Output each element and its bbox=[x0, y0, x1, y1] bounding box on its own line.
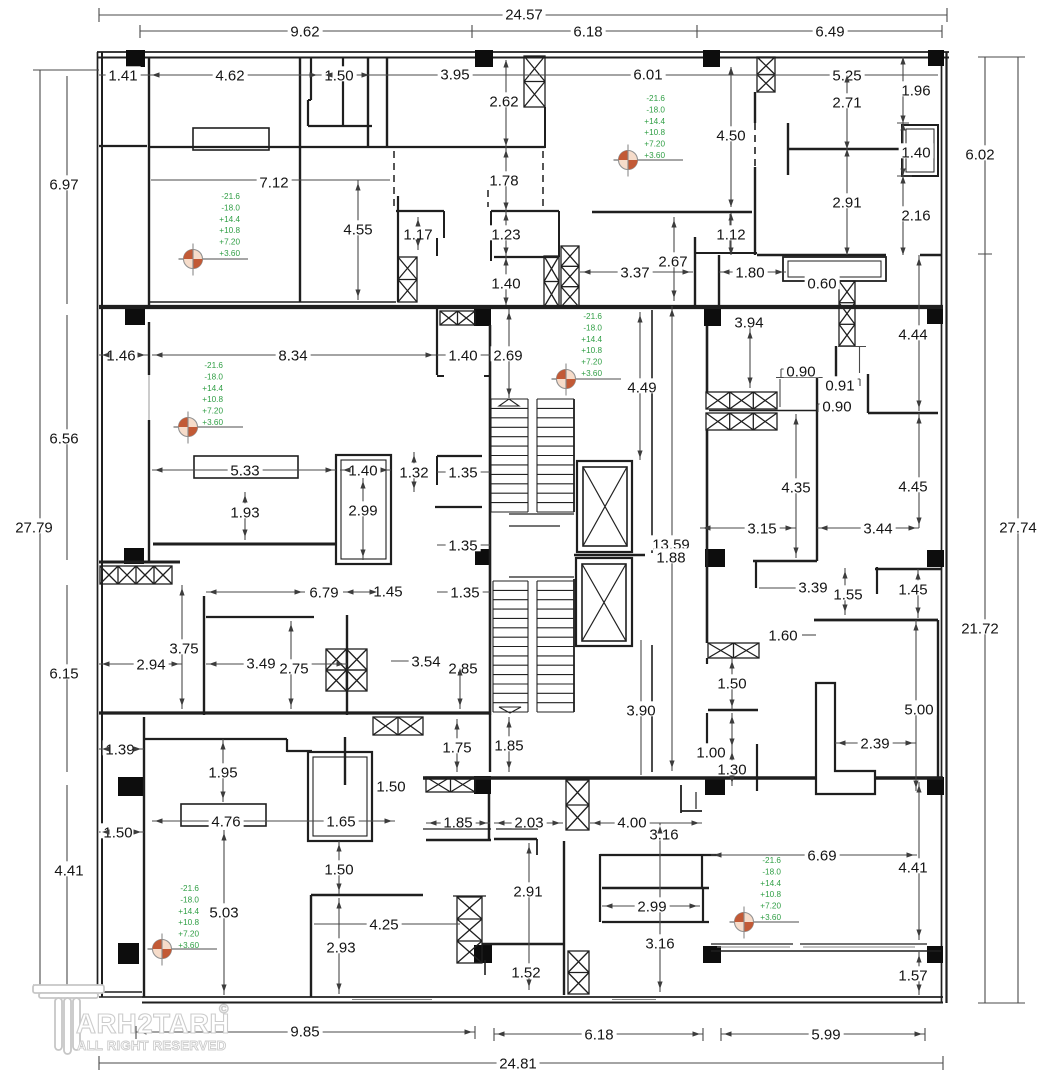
level annotation bbox=[644, 94, 665, 160]
dimension 1.40 bbox=[346, 461, 381, 476]
svg-text:+10.8: +10.8 bbox=[581, 346, 602, 355]
wall bbox=[708, 709, 758, 711]
dim 6.69 bbox=[711, 854, 917, 856]
wall jamb bbox=[437, 375, 444, 377]
dimension 5.99 bbox=[809, 1025, 844, 1040]
dimension 1.32 bbox=[397, 463, 432, 478]
dimension 1.52 bbox=[509, 963, 544, 978]
dimension 5.33 bbox=[228, 461, 263, 476]
dimension 0.90 bbox=[784, 362, 819, 377]
dimension 6.49 bbox=[813, 22, 848, 37]
svg-text:4.50: 4.50 bbox=[716, 127, 745, 144]
svg-text:0.90: 0.90 bbox=[822, 398, 851, 415]
svg-text:2.99: 2.99 bbox=[348, 502, 377, 519]
dimension 2.75 bbox=[277, 659, 312, 674]
wall bbox=[600, 854, 719, 856]
wall bbox=[311, 894, 423, 896]
dim 1.12 bbox=[730, 213, 732, 255]
stair shaft wall bbox=[573, 399, 575, 512]
svg-text:3.95: 3.95 bbox=[440, 66, 469, 83]
dimension 1.12 bbox=[714, 225, 749, 240]
svg-text:6.18: 6.18 bbox=[573, 23, 602, 40]
dim 4.25 bbox=[314, 923, 460, 925]
svg-text:1.39: 1.39 bbox=[105, 741, 134, 758]
stair shaft wall bbox=[573, 579, 575, 712]
dim 1.35 mid bbox=[437, 545, 490, 592]
survey marker bbox=[174, 412, 244, 444]
dimension 3.75 bbox=[167, 639, 202, 654]
svg-text:3.16: 3.16 bbox=[649, 826, 678, 843]
hatched wall bbox=[440, 311, 475, 325]
dim 3.75 bbox=[181, 585, 183, 709]
dim 3.15/3.44 bbox=[700, 527, 919, 529]
outer wall top face bbox=[97, 51, 949, 53]
dim 1.50 right corridor bbox=[731, 658, 733, 710]
level annotation bbox=[178, 884, 199, 950]
dimension 21.72 bbox=[959, 619, 1002, 634]
wall bbox=[99, 145, 147, 147]
dimension 4.41 bbox=[896, 858, 931, 873]
dim 1.50 left bbox=[99, 831, 144, 833]
svg-text:ARH2TARH: ARH2TARH bbox=[76, 1008, 230, 1039]
column bbox=[927, 550, 944, 567]
dim 1.60 bbox=[802, 634, 816, 636]
column bbox=[118, 943, 139, 964]
column bbox=[475, 50, 493, 67]
svg-text:1.55: 1.55 bbox=[833, 586, 862, 603]
svg-text:1.80: 1.80 bbox=[735, 264, 764, 281]
wall bbox=[695, 252, 757, 254]
svg-text:3.15: 3.15 bbox=[747, 520, 776, 537]
wall face bbox=[496, 828, 538, 830]
svg-text:2.39: 2.39 bbox=[860, 735, 889, 752]
dimension 3.15 bbox=[745, 519, 780, 534]
dim 1.95 bbox=[222, 739, 224, 802]
window sill bottom bbox=[352, 999, 432, 1001]
hatched wall bbox=[326, 649, 367, 691]
wall bbox=[435, 506, 482, 508]
dim bottom rooms row bbox=[426, 822, 702, 824]
dim 1.39 bbox=[99, 748, 144, 750]
survey marker bbox=[614, 145, 684, 177]
dimension 1.30 bbox=[715, 760, 750, 775]
dimension 4.55 bbox=[341, 220, 376, 235]
svg-text:-21.6: -21.6 bbox=[762, 856, 781, 865]
counter 4.76 bbox=[181, 804, 266, 826]
dimension 1.45 bbox=[371, 582, 406, 597]
dim 5.00 bbox=[915, 620, 917, 791]
dimension 2.85 bbox=[446, 659, 481, 674]
wall bbox=[148, 322, 150, 375]
left inner dim line bbox=[66, 76, 68, 985]
wall bbox=[397, 196, 399, 302]
dashed opening bbox=[487, 190, 489, 207]
dimension 2.16 bbox=[899, 206, 934, 221]
dimension 1.39 bbox=[103, 740, 138, 755]
stair mid landing bbox=[509, 513, 574, 515]
svg-text:+14.4: +14.4 bbox=[581, 335, 602, 344]
wall bbox=[346, 615, 348, 715]
column bbox=[705, 549, 725, 567]
dimension 8.34 bbox=[276, 346, 311, 361]
dimension 6.01 bbox=[631, 65, 666, 80]
svg-text:0.91: 0.91 bbox=[825, 377, 854, 394]
wall bbox=[816, 378, 818, 561]
stair shaft wall left bbox=[489, 325, 492, 715]
svg-text:+14.4: +14.4 bbox=[219, 215, 240, 224]
stair direction arrow down bbox=[499, 707, 521, 713]
dimension 1.88 bbox=[654, 548, 689, 563]
svg-text:-21.6: -21.6 bbox=[204, 361, 223, 370]
outer wall right bbox=[945, 52, 947, 1003]
svg-text:3.39: 3.39 bbox=[798, 579, 827, 596]
wall bbox=[694, 237, 696, 306]
tall cabinet box bbox=[336, 455, 391, 564]
svg-text:2.67: 2.67 bbox=[658, 253, 687, 270]
wall bbox=[488, 794, 490, 841]
dimension 1.40 bbox=[489, 274, 524, 289]
level annotation bbox=[760, 856, 781, 922]
svg-text:8.34: 8.34 bbox=[278, 347, 307, 364]
svg-text:1.35: 1.35 bbox=[448, 537, 477, 554]
svg-text:24.81: 24.81 bbox=[499, 1055, 537, 1072]
svg-text:3.49: 3.49 bbox=[246, 655, 275, 672]
wall bbox=[436, 238, 438, 256]
dim 2.91/1.52 bbox=[528, 843, 530, 990]
outer wall left face bbox=[97, 52, 99, 997]
wall bbox=[308, 99, 311, 101]
wall bbox=[544, 107, 546, 148]
dimension 0.90 bbox=[820, 397, 855, 412]
svg-text:4.62: 4.62 bbox=[215, 67, 244, 84]
dimension 1.95 bbox=[206, 763, 241, 778]
elevator shaft 2 bbox=[576, 558, 632, 646]
outer wall right face bbox=[941, 52, 943, 1003]
column bbox=[475, 549, 491, 565]
dim 2.39 bbox=[835, 742, 916, 744]
dimension 2.62 bbox=[487, 92, 522, 107]
svg-text:+10.8: +10.8 bbox=[202, 395, 223, 404]
small room 1.65 bbox=[308, 752, 372, 841]
column bbox=[474, 776, 491, 794]
dimension 7.12 bbox=[257, 173, 292, 188]
dimension 1.00 bbox=[694, 743, 729, 758]
dimension 5.25 bbox=[830, 66, 865, 81]
wall bbox=[755, 561, 757, 588]
column bbox=[705, 777, 725, 795]
wall bbox=[754, 92, 756, 123]
dimension 6.79 bbox=[307, 583, 342, 598]
dashed opening bbox=[393, 151, 395, 207]
svg-text:3.54: 3.54 bbox=[411, 653, 440, 670]
svg-text:+14.4: +14.4 bbox=[644, 117, 665, 126]
dimension 27.74 bbox=[997, 518, 1039, 533]
wall bbox=[718, 255, 720, 306]
dim 4.55 bbox=[357, 180, 359, 300]
svg-text:4.76: 4.76 bbox=[211, 813, 240, 830]
dimension 2.99 bbox=[635, 897, 670, 912]
wall bbox=[494, 838, 537, 840]
wall step bbox=[680, 785, 682, 813]
wall bbox=[310, 57, 312, 100]
wall bbox=[491, 210, 559, 212]
dim 7.12 bbox=[151, 179, 390, 181]
dimension 1.93 bbox=[228, 503, 263, 518]
dimension 3.37 bbox=[618, 263, 653, 278]
svg-text:5.03: 5.03 bbox=[209, 904, 238, 921]
dimension 1.40 bbox=[899, 143, 934, 158]
dim 1.32/1.35 bbox=[414, 452, 490, 492]
svg-text:1.32: 1.32 bbox=[399, 464, 428, 481]
dimension 1.35 bbox=[448, 583, 483, 598]
wall bbox=[558, 211, 560, 257]
dimension 4.41 bbox=[52, 861, 87, 876]
wall bbox=[494, 256, 559, 258]
dimension 1.50 bbox=[374, 777, 409, 792]
dimension 2.99 bbox=[346, 501, 381, 516]
column bbox=[124, 548, 144, 564]
hatched wall bbox=[561, 246, 579, 307]
wall bbox=[99, 561, 180, 564]
dimension 1.41 bbox=[106, 66, 141, 81]
wall face bbox=[423, 828, 491, 830]
column bbox=[703, 946, 721, 963]
dimension 0.60 bbox=[805, 274, 840, 289]
wall bbox=[875, 568, 941, 570]
dim line row2 top bbox=[140, 25, 942, 38]
dimension 3.90 bbox=[624, 701, 659, 716]
dimension 4.45 bbox=[896, 477, 931, 492]
dimension 3.16 bbox=[647, 825, 682, 840]
column bbox=[927, 777, 944, 795]
wall bbox=[488, 794, 490, 841]
dimension 3.95 bbox=[438, 65, 473, 80]
dimension 5.03 bbox=[207, 903, 242, 918]
svg-text:+7.20: +7.20 bbox=[644, 140, 665, 149]
dimension 2.03 bbox=[512, 813, 547, 828]
svg-text:5.33: 5.33 bbox=[230, 462, 259, 479]
svg-text:-21.6: -21.6 bbox=[221, 192, 240, 201]
svg-text:-18.0: -18.0 bbox=[204, 372, 223, 381]
hatched wall bbox=[100, 566, 172, 584]
door opening bbox=[148, 375, 150, 420]
dimension 6.56 bbox=[47, 429, 82, 444]
svg-text:+10.8: +10.8 bbox=[219, 226, 240, 235]
wall cap bbox=[453, 895, 486, 897]
wall bbox=[867, 374, 869, 413]
dimension 1.35 bbox=[446, 463, 481, 478]
dim 1.00/1.30 bbox=[711, 713, 732, 786]
dimension 3.54 bbox=[409, 652, 444, 667]
svg-text:+7.20: +7.20 bbox=[202, 407, 223, 416]
dim 0.90 group bbox=[776, 347, 866, 413]
wall bbox=[143, 717, 145, 997]
wall face bbox=[149, 301, 396, 303]
dim 3.94 bbox=[749, 328, 751, 388]
dim line 24.57 top bbox=[99, 8, 947, 22]
svg-text:1.85: 1.85 bbox=[494, 737, 523, 754]
dim 2.99 room bbox=[602, 905, 700, 907]
wall between elevators bbox=[574, 554, 645, 556]
column bbox=[703, 50, 720, 67]
svg-text:2.93: 2.93 bbox=[326, 939, 355, 956]
dimension 1.60 bbox=[766, 626, 801, 641]
svg-text:1.46: 1.46 bbox=[106, 347, 135, 364]
svg-text:4.41: 4.41 bbox=[898, 859, 927, 876]
svg-text:1.40: 1.40 bbox=[448, 347, 477, 364]
hatched wall bbox=[457, 897, 482, 963]
dimension 13.59 bbox=[650, 535, 693, 550]
dimension 5.00 bbox=[902, 700, 937, 715]
dimension 1.50 bbox=[322, 860, 357, 875]
column bbox=[474, 308, 491, 326]
hatched wall bbox=[708, 643, 759, 658]
dim 1.93/2.99 bbox=[245, 478, 363, 560]
dimension 1.50 bbox=[715, 674, 750, 689]
wall bbox=[709, 410, 816, 412]
dimension 27.79 bbox=[13, 518, 56, 533]
svg-text:5.00: 5.00 bbox=[904, 701, 933, 718]
dimension 2.93 bbox=[324, 938, 359, 953]
column bbox=[927, 307, 943, 324]
wall bbox=[426, 839, 491, 841]
level annotation bbox=[219, 192, 240, 258]
svg-text:1.40: 1.40 bbox=[348, 462, 377, 479]
hatched wall bbox=[398, 257, 417, 302]
survey marker bbox=[730, 907, 800, 939]
svg-text:+3.60: +3.60 bbox=[644, 151, 665, 160]
wall stub bbox=[536, 839, 538, 855]
wall bbox=[937, 620, 939, 778]
wall bbox=[787, 123, 789, 175]
dimension 6.02 bbox=[963, 145, 998, 160]
dimension 2.91 bbox=[511, 882, 546, 897]
outer wall top bbox=[97, 57, 949, 59]
stair upper flights bbox=[491, 399, 574, 512]
dim 4.49 bbox=[639, 312, 641, 460]
dimension 4.62 bbox=[213, 66, 248, 81]
wall bbox=[437, 455, 482, 457]
outer wall left bbox=[101, 52, 103, 997]
wall bbox=[367, 57, 369, 147]
dim 2.94/3.49 bbox=[99, 663, 347, 665]
hatched wall bbox=[839, 281, 855, 346]
wall bbox=[814, 619, 938, 622]
wall bbox=[287, 750, 312, 752]
svg-text:2.91: 2.91 bbox=[513, 883, 542, 900]
svg-text:1.40: 1.40 bbox=[901, 144, 930, 161]
dimension 4.44 bbox=[896, 325, 931, 340]
dimension 4.25 bbox=[367, 915, 402, 930]
svg-text:1.88: 1.88 bbox=[656, 549, 685, 566]
counter 5.33 bbox=[194, 456, 298, 478]
dimension 2.69 bbox=[491, 346, 526, 361]
svg-text:+3.60: +3.60 bbox=[581, 369, 602, 378]
svg-text:6.69: 6.69 bbox=[807, 847, 836, 864]
wall bbox=[706, 430, 709, 643]
dimension 0.91 bbox=[823, 376, 858, 391]
wall bbox=[757, 254, 886, 257]
svg-text:1.23: 1.23 bbox=[491, 226, 520, 243]
svg-text:2.16: 2.16 bbox=[901, 207, 930, 224]
svg-text:2.91: 2.91 bbox=[832, 194, 861, 211]
svg-text:+10.8: +10.8 bbox=[760, 890, 781, 899]
dim 3.16 bbox=[659, 823, 661, 992]
svg-text:1.45: 1.45 bbox=[898, 581, 927, 598]
wall bbox=[436, 456, 438, 485]
wall bbox=[701, 854, 703, 888]
svg-text:1.41: 1.41 bbox=[108, 67, 137, 84]
svg-text:21.72: 21.72 bbox=[961, 620, 999, 637]
bottom dim row 9.85/6.18/5.99 bbox=[136, 1026, 925, 1041]
dimension 1.75 bbox=[440, 738, 475, 753]
dim 13.59 / 1.88 bbox=[671, 306, 673, 771]
svg-text:1.85: 1.85 bbox=[443, 814, 472, 831]
svg-text:6.15: 6.15 bbox=[49, 665, 78, 682]
dimension 1.40 bbox=[446, 346, 481, 361]
svg-text:+14.4: +14.4 bbox=[202, 384, 223, 393]
svg-text:4.55: 4.55 bbox=[343, 221, 372, 238]
hatched wall bbox=[373, 717, 423, 735]
dashed opening bbox=[542, 151, 544, 207]
wall bbox=[342, 57, 344, 126]
dimension 3.39 bbox=[796, 578, 831, 593]
svg-text:+14.4: +14.4 bbox=[760, 879, 781, 888]
dim 1.17 bbox=[417, 217, 419, 250]
dim 4.41/1.57 right bbox=[918, 782, 920, 995]
wall bbox=[443, 211, 445, 238]
svg-text:3.44: 3.44 bbox=[863, 520, 892, 537]
svg-text:+10.8: +10.8 bbox=[644, 128, 665, 137]
dimension 6.97 bbox=[47, 175, 82, 190]
dimension 2.39 bbox=[858, 734, 893, 749]
dimension 1.85 bbox=[492, 736, 527, 751]
svg-text:2.69: 2.69 bbox=[493, 347, 522, 364]
main wall band lower bbox=[423, 776, 943, 780]
dim 2.75 bbox=[290, 621, 292, 709]
svg-text:-18.0: -18.0 bbox=[583, 323, 602, 332]
niche 0.60 bbox=[783, 257, 886, 281]
dim 2.62/1.78/1.23/1.40 column bbox=[505, 60, 507, 305]
dimension 3.16 bbox=[643, 934, 678, 949]
dimension 2.71 bbox=[830, 93, 865, 108]
stair direction arrow up bbox=[499, 399, 519, 406]
dimension 1.57 bbox=[896, 966, 931, 981]
wall bbox=[876, 567, 878, 594]
svg-text:6.01: 6.01 bbox=[633, 66, 662, 83]
svg-text:4.25: 4.25 bbox=[369, 916, 398, 933]
dim 5.03 bbox=[223, 830, 225, 995]
hatched wall bbox=[524, 56, 545, 107]
dim 2.71/2.91 bbox=[846, 75, 848, 255]
svg-text:3.37: 3.37 bbox=[620, 264, 649, 281]
dimension 9.62 bbox=[288, 22, 323, 37]
wall bbox=[706, 713, 708, 749]
svg-text:+7.20: +7.20 bbox=[760, 902, 781, 911]
svg-text:0.60: 0.60 bbox=[807, 275, 836, 292]
svg-text:27.74: 27.74 bbox=[999, 519, 1037, 536]
dim 2.93 bbox=[338, 898, 340, 994]
column bbox=[126, 50, 145, 67]
svg-text:6.56: 6.56 bbox=[49, 430, 78, 447]
corridor wall bbox=[651, 645, 653, 772]
dimension 3.49 bbox=[244, 654, 279, 669]
svg-text:9.62: 9.62 bbox=[290, 23, 319, 40]
dim 4.35 bbox=[795, 414, 797, 558]
column bbox=[928, 50, 944, 66]
dimension 24.81 bbox=[497, 1054, 540, 1069]
svg-text:+7.20: +7.20 bbox=[178, 930, 199, 939]
